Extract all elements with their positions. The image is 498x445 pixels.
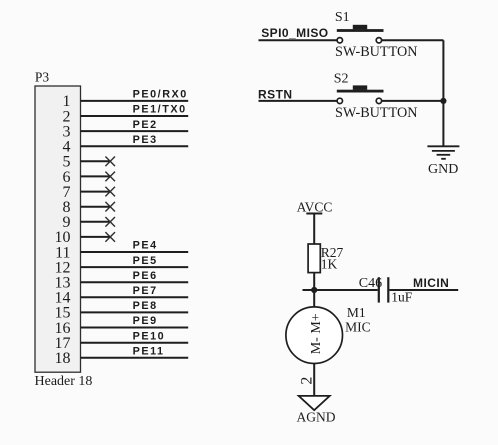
wire pin 14 <box>81 296 189 298</box>
svg-text:AGND: AGND <box>297 410 336 425</box>
svg-text:2: 2 <box>299 377 316 385</box>
svg-text:PE5: PE5 <box>133 255 158 267</box>
wire pin 5 <box>81 160 111 162</box>
wire pin 15 <box>81 311 189 313</box>
wire pin 7 <box>81 191 111 193</box>
capacitor C46 <box>379 277 389 302</box>
wire RSTN <box>259 100 338 102</box>
microphone M1 <box>286 307 343 364</box>
wire R27 to node <box>313 273 315 290</box>
svg-text:SW-BUTTON: SW-BUTTON <box>335 105 418 121</box>
svg-text:S1: S1 <box>335 10 350 25</box>
power AVCC bar <box>306 213 322 215</box>
wire pin 11 <box>81 251 189 253</box>
wire pin 18 <box>81 357 189 359</box>
svg-text:PE10: PE10 <box>133 330 166 342</box>
wire pin 9 <box>81 221 111 223</box>
connector P3 <box>35 86 81 372</box>
wire S2 to GND rail <box>382 100 443 102</box>
wire SPI0_MISO <box>259 39 338 41</box>
svg-text:1K: 1K <box>321 257 338 272</box>
no-connect X pin 9 <box>105 217 115 227</box>
wire pin 8 <box>81 206 111 208</box>
wire MIC to AGND <box>313 364 315 396</box>
svg-text:AVCC: AVCC <box>297 199 333 214</box>
switch S1 SW-BUTTON <box>337 25 384 43</box>
svg-text:PE2: PE2 <box>133 119 158 131</box>
wire AVCC to R27 <box>313 214 315 245</box>
svg-text:PE9: PE9 <box>133 315 158 327</box>
wire S1 to GND rail <box>382 39 443 41</box>
wire pin 3 <box>81 130 189 132</box>
wire pin 13 <box>81 281 189 283</box>
switch S2 SW-BUTTON <box>337 85 384 103</box>
svg-text:1uF: 1uF <box>391 290 413 305</box>
wire pin 10 <box>81 236 111 238</box>
ground GND symbol <box>427 146 459 159</box>
wire pin 4 <box>81 145 189 147</box>
junction dot <box>440 98 446 104</box>
resistor R27 <box>308 244 320 273</box>
svg-text:SPI0_MISO: SPI0_MISO <box>261 26 328 40</box>
svg-text:GND: GND <box>428 162 458 177</box>
svg-text:PE3: PE3 <box>133 134 158 146</box>
svg-text:PE8: PE8 <box>133 300 158 312</box>
wire pin 16 <box>81 327 189 329</box>
wire pin 12 <box>81 266 189 268</box>
no-connect X pin 6 <box>105 172 115 182</box>
no-connect X pin 10 <box>105 232 115 242</box>
wire pin 17 <box>81 342 189 344</box>
wire pin 2 <box>81 115 189 117</box>
svg-text:PE7: PE7 <box>133 285 158 297</box>
svg-text:PE0/RX0: PE0/RX0 <box>133 89 188 101</box>
svg-text:Header 18: Header 18 <box>35 374 93 389</box>
svg-text:S2: S2 <box>334 71 349 86</box>
svg-text:18: 18 <box>55 350 71 367</box>
wire node to MIC <box>313 290 315 307</box>
svg-text:PE6: PE6 <box>133 270 158 282</box>
wire node to C46 <box>303 289 378 291</box>
svg-text:C46: C46 <box>359 276 382 291</box>
svg-text:MIC: MIC <box>345 320 371 335</box>
svg-text:SW-BUTTON: SW-BUTTON <box>335 44 418 60</box>
junction node MIC <box>311 287 317 293</box>
no-connect X pin 7 <box>105 187 115 197</box>
no-connect X pin 5 <box>105 157 115 167</box>
svg-text:PE11: PE11 <box>133 346 165 358</box>
wire pin 1 <box>81 100 189 102</box>
wire GND rail vertical <box>442 40 444 146</box>
svg-text:P3: P3 <box>35 70 50 85</box>
no-connect X pin 8 <box>105 202 115 212</box>
svg-text:MICIN: MICIN <box>413 276 449 290</box>
svg-text:M- M+: M- M+ <box>309 313 324 354</box>
svg-text:PE4: PE4 <box>133 240 158 252</box>
wire pin 6 <box>81 175 111 177</box>
ground AGND symbol <box>299 396 330 410</box>
svg-text:RSTN: RSTN <box>258 88 292 102</box>
svg-text:PE1/TX0: PE1/TX0 <box>133 104 187 116</box>
wire C46 to MICIN <box>389 289 458 291</box>
svg-text:M1: M1 <box>347 305 366 320</box>
